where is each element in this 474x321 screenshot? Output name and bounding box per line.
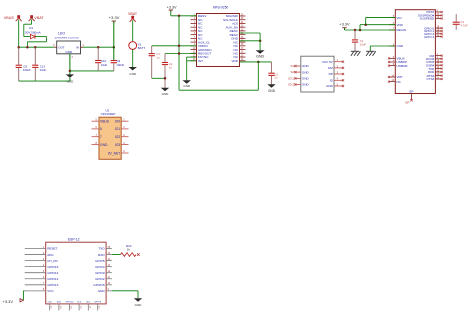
svg-text:ADC: ADC bbox=[47, 253, 54, 257]
svg-text:1u: 1u bbox=[274, 76, 278, 80]
svg-text:VBUS: VBUS bbox=[100, 120, 110, 124]
svg-text:GPIO4: GPIO4 bbox=[95, 265, 105, 269]
svg-text:GPIO10: GPIO10 bbox=[65, 302, 74, 304]
svg-text:4.7uF: 4.7uF bbox=[461, 24, 468, 28]
svg-text:GND: GND bbox=[302, 64, 310, 68]
svg-text:GPIO9: GPIO9 bbox=[94, 302, 101, 304]
svg-text:GND: GND bbox=[302, 70, 310, 74]
svg-text:CTS#: CTS# bbox=[427, 77, 435, 81]
svg-text:INT: INT bbox=[198, 59, 203, 63]
svg-text:REGIN: REGIN bbox=[397, 28, 407, 32]
svg-text:CLK: CLK bbox=[77, 302, 82, 304]
svg-text:GPIO16: GPIO16 bbox=[47, 265, 58, 269]
svg-text:GND: GND bbox=[100, 143, 108, 147]
svg-text:GPIO2: GPIO2 bbox=[95, 277, 105, 281]
svg-text:SUSPEND: SUSPEND bbox=[420, 17, 435, 21]
svg-text:RESET: RESET bbox=[47, 247, 57, 251]
svg-text:GPIO15: GPIO15 bbox=[93, 283, 104, 287]
svg-text:GPIO0: GPIO0 bbox=[95, 271, 105, 275]
svg-text:LDO: LDO bbox=[58, 31, 65, 35]
svg-text:VCC: VCC bbox=[47, 289, 54, 293]
svg-text:GPIO13: GPIO13 bbox=[47, 283, 58, 287]
svg-text:GPIO5: GPIO5 bbox=[95, 259, 105, 263]
svg-text:IN: IN bbox=[76, 46, 79, 50]
svg-text:10uF: 10uF bbox=[40, 68, 47, 72]
svg-text:6: 6 bbox=[100, 127, 102, 131]
svg-text:GPIO12: GPIO12 bbox=[47, 277, 58, 281]
svg-text:1u: 1u bbox=[169, 65, 173, 69]
svg-text:DP: DP bbox=[329, 72, 333, 76]
svg-text:GPIO.3: GPIO.3 bbox=[424, 35, 434, 39]
svg-text:GND: GND bbox=[65, 50, 73, 54]
svg-text:BATT: BATT bbox=[138, 46, 146, 50]
svg-text:GND: GND bbox=[135, 303, 143, 307]
svg-text:VBAT: VBAT bbox=[128, 12, 138, 16]
svg-text:GND: GND bbox=[129, 72, 137, 76]
svg-text:10uF: 10uF bbox=[101, 63, 108, 67]
svg-text:TXD: TXD bbox=[98, 247, 105, 251]
svg-text:GND: GND bbox=[162, 92, 170, 96]
svg-text:CP2104EP: CP2104EP bbox=[101, 112, 116, 116]
svg-text:IO3: IO3 bbox=[115, 143, 120, 147]
svg-text:+3.3V: +3.3V bbox=[3, 299, 14, 304]
svg-text:GPIO14: GPIO14 bbox=[47, 271, 58, 275]
svg-text:MPU-9250: MPU-9250 bbox=[213, 6, 228, 10]
svg-text:GND: GND bbox=[397, 44, 405, 48]
svg-text:RXD: RXD bbox=[98, 253, 105, 257]
svg-text:GND: GND bbox=[302, 83, 310, 87]
svg-text:VPP: VPP bbox=[397, 75, 403, 79]
svg-text:GND: GND bbox=[98, 289, 106, 293]
svg-text:GND: GND bbox=[183, 84, 191, 88]
svg-text:1u: 1u bbox=[156, 55, 160, 59]
svg-text:ESP-12: ESP-12 bbox=[68, 238, 80, 242]
svg-text:S3.1: S3.1 bbox=[288, 77, 294, 81]
svg-text:USBDM: USBDM bbox=[397, 64, 408, 68]
svg-text:7: 7 bbox=[100, 135, 102, 139]
svg-text:EP: EP bbox=[409, 89, 413, 93]
svg-text:VDD: VDD bbox=[231, 59, 238, 63]
svg-text:+3.3V: +3.3V bbox=[109, 15, 120, 20]
svg-text:VCC 5V: VCC 5V bbox=[322, 60, 333, 64]
svg-text:IO2: IO2 bbox=[115, 135, 120, 139]
svg-text:EP: EP bbox=[405, 100, 409, 104]
svg-text:DM: DM bbox=[328, 66, 333, 70]
svg-text:(LP5907MFX-3.3-SOT23): (LP5907MFX-3.3-SOT23) bbox=[55, 38, 79, 40]
svg-text:CH_PD: CH_PD bbox=[47, 259, 58, 263]
svg-text:1k: 1k bbox=[127, 248, 131, 252]
svg-text:GND: GND bbox=[302, 77, 310, 81]
svg-text:OUT: OUT bbox=[58, 46, 65, 50]
svg-text:+3.3V: +3.3V bbox=[167, 5, 177, 9]
svg-text:D1: D1 bbox=[29, 26, 33, 30]
svg-text:10uF: 10uF bbox=[360, 42, 367, 46]
svg-text:IO0: IO0 bbox=[115, 120, 120, 124]
svg-text:3V_NET: 3V_NET bbox=[108, 151, 120, 155]
svg-text:+3.3V: +3.3V bbox=[340, 23, 350, 27]
svg-text:GND: GND bbox=[326, 84, 334, 88]
svg-text:20V 500mA: 20V 500mA bbox=[25, 30, 41, 34]
svg-text:VBAT: VBAT bbox=[34, 16, 44, 20]
svg-text:VIO: VIO bbox=[397, 16, 403, 20]
svg-text:GND: GND bbox=[256, 55, 265, 59]
svg-text:100nF: 100nF bbox=[23, 68, 31, 72]
svg-text:GND: GND bbox=[268, 89, 276, 93]
svg-text:IO1: IO1 bbox=[115, 127, 120, 131]
svg-text:100nF: 100nF bbox=[116, 63, 124, 67]
svg-text:VDD: VDD bbox=[397, 23, 404, 27]
svg-text:VBUS: VBUS bbox=[4, 16, 15, 20]
svg-text:S2: S2 bbox=[290, 70, 294, 74]
svg-text:S1: S1 bbox=[290, 64, 294, 68]
svg-text:S3.2: S3.2 bbox=[288, 83, 294, 87]
